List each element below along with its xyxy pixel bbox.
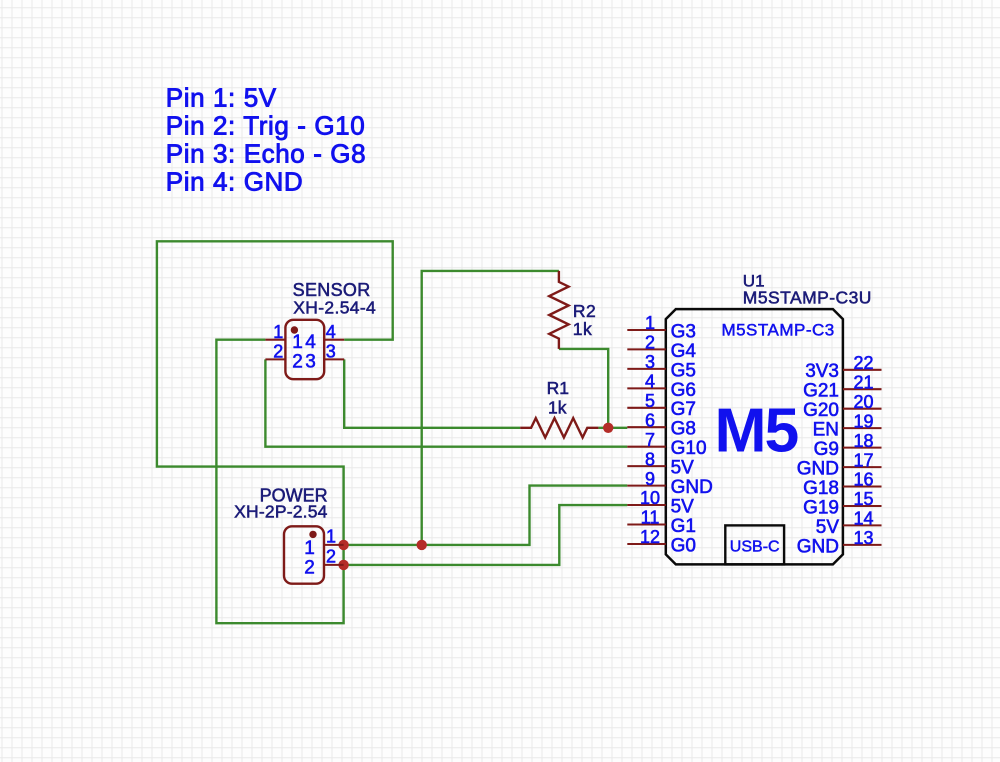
resistor R1 body — [520, 418, 598, 437]
svg-text:2: 2 — [645, 333, 655, 353]
wire sensor pin3 echo to R1 — [344, 359, 520, 427]
svg-text:M5STAMP-C3: M5STAMP-C3 — [721, 320, 834, 339]
svg-text:17: 17 — [853, 450, 873, 470]
wire R2 top to gnd junction — [422, 271, 559, 545]
svg-text:R1: R1 — [547, 378, 569, 398]
svg-text:G19: G19 — [803, 497, 839, 518]
svg-text:20: 20 — [853, 392, 873, 412]
svg-text:2: 2 — [326, 547, 336, 567]
svg-text:EN: EN — [813, 420, 839, 441]
U1 pin 21 stub — [843, 388, 882, 390]
svg-text:5V: 5V — [671, 458, 695, 479]
svg-text:G10: G10 — [671, 438, 707, 459]
U1 pin 16 stub — [843, 485, 882, 487]
U1 pin 20 stub — [843, 408, 882, 410]
junction dot gnd mid — [417, 540, 427, 550]
U1 pin 2 stub — [627, 348, 666, 350]
svg-text:19: 19 — [853, 411, 873, 431]
sensor pin 4 stub — [324, 339, 344, 341]
U1 pin 18 stub — [843, 447, 882, 449]
svg-text:1: 1 — [304, 538, 315, 559]
U1 pin 15 stub — [843, 505, 882, 507]
U1 pin 4 stub — [627, 387, 666, 389]
IC U1 body outline — [666, 309, 843, 564]
svg-text:22: 22 — [853, 353, 873, 373]
wire gnd junctions to GND pin9 — [344, 486, 628, 545]
svg-text:13: 13 — [853, 528, 873, 548]
wire net GND loop from sensor pin4 — [157, 241, 393, 623]
U1 pin 11 stub — [627, 523, 666, 525]
note pin map text — [166, 82, 366, 196]
svg-text:G5: G5 — [671, 360, 696, 381]
svg-text:2: 2 — [273, 342, 283, 362]
svg-text:3V3: 3V3 — [805, 361, 839, 382]
svg-text:G21: G21 — [803, 381, 839, 402]
svg-text:G9: G9 — [814, 439, 839, 460]
svg-text:G0: G0 — [671, 535, 696, 556]
wire R2 bottom to G8 junction — [559, 349, 608, 428]
svg-text:1: 1 — [645, 313, 655, 333]
svg-text:G8: G8 — [671, 419, 696, 440]
U1 pin 17 stub — [843, 466, 882, 468]
svg-text:1: 1 — [326, 527, 336, 547]
svg-text:4: 4 — [326, 322, 336, 342]
svg-text:15: 15 — [853, 489, 873, 509]
svg-text:2: 2 — [304, 558, 315, 579]
svg-text:GND: GND — [797, 536, 839, 557]
svg-text:4: 4 — [645, 372, 655, 392]
svg-text:21: 21 — [853, 373, 873, 393]
svg-text:7: 7 — [645, 430, 655, 450]
svg-text:16: 16 — [853, 470, 873, 490]
wire R1 right to G8 pin — [598, 427, 627, 429]
svg-text:G3: G3 — [671, 321, 696, 342]
power pin 2 stub — [324, 564, 344, 566]
svg-text:11: 11 — [641, 508, 660, 528]
svg-text:8: 8 — [645, 449, 655, 469]
svg-text:1k: 1k — [548, 398, 567, 418]
U1 pin 22 stub — [843, 369, 882, 371]
svg-text:4: 4 — [305, 332, 316, 353]
svg-text:USB-C: USB-C — [730, 539, 780, 556]
svg-text:M5: M5 — [714, 395, 798, 465]
svg-text:Pin 1: 5V: Pin 1: 5V — [166, 82, 277, 112]
svg-text:Pin 4: GND: Pin 4: GND — [166, 166, 303, 196]
svg-text:GND: GND — [797, 459, 839, 480]
U1 pin 14 stub — [843, 524, 882, 526]
junction dot power pin1 — [338, 540, 348, 550]
USB-C box — [725, 525, 784, 564]
svg-text:Pin 2: Trig - G10: Pin 2: Trig - G10 — [166, 110, 365, 140]
junction dot R1 R2 G8 — [603, 423, 613, 433]
resistor R2 body — [549, 271, 568, 349]
connector POWER pin1 mark dot — [309, 531, 316, 538]
wire 5V junction to 5V pin10 — [344, 505, 628, 565]
U1 pin 5 stub — [627, 407, 666, 409]
svg-text:G18: G18 — [803, 478, 839, 499]
svg-text:1k: 1k — [573, 319, 592, 339]
svg-text:18: 18 — [853, 431, 873, 451]
U1 pin 10 stub — [627, 504, 666, 506]
svg-text:M5STAMP-C3U: M5STAMP-C3U — [743, 288, 872, 308]
U1 pin 1 stub — [627, 329, 666, 331]
svg-text:2: 2 — [292, 352, 303, 373]
connector J1 SENSOR outline — [285, 320, 324, 379]
U1 pin 12 stub — [627, 543, 666, 545]
svg-text:G6: G6 — [671, 380, 696, 401]
svg-text:5: 5 — [645, 391, 655, 411]
sensor pin 1 stub — [265, 339, 285, 341]
svg-text:G1: G1 — [671, 516, 696, 537]
svg-text:6: 6 — [645, 411, 655, 431]
sensor pin 2 stub — [265, 358, 285, 360]
svg-text:GND: GND — [671, 477, 713, 498]
svg-text:1: 1 — [292, 332, 303, 353]
power pin 1 stub — [324, 544, 344, 546]
svg-text:1: 1 — [273, 322, 283, 342]
sensor pin 3 stub — [324, 358, 344, 360]
svg-text:10: 10 — [640, 488, 660, 508]
U1 pin 9 stub — [627, 485, 666, 487]
U1 pin 19 stub — [843, 427, 882, 429]
U1 pin 7 stub — [627, 446, 666, 448]
svg-text:G4: G4 — [671, 341, 697, 362]
svg-text:G7: G7 — [671, 399, 696, 420]
U1 pin 3 stub — [627, 368, 666, 370]
svg-text:5V: 5V — [816, 517, 840, 538]
U1 pin 8 stub — [627, 465, 666, 467]
U1 pin 13 stub — [843, 544, 882, 546]
connector SENSOR pin1 mark dot — [291, 326, 298, 333]
svg-text:9: 9 — [645, 469, 655, 489]
wire sensor pin2 trig to G10 pin — [265, 359, 627, 446]
svg-text:14: 14 — [853, 509, 873, 529]
svg-text:5V: 5V — [671, 496, 695, 517]
svg-text:G20: G20 — [803, 400, 839, 421]
svg-text:12: 12 — [640, 527, 660, 547]
svg-text:3: 3 — [305, 352, 316, 373]
svg-text:Pin 3: Echo - G8: Pin 3: Echo - G8 — [166, 138, 366, 168]
connector POWER outline — [284, 526, 324, 583]
junction dot power pin2 — [338, 560, 348, 570]
svg-text:3: 3 — [326, 342, 336, 362]
U1 pin 6 stub — [627, 426, 666, 428]
svg-text:3: 3 — [645, 352, 655, 372]
svg-text:XH-2P-2.54: XH-2P-2.54 — [234, 501, 327, 521]
svg-text:XH-2.54-4: XH-2.54-4 — [293, 297, 376, 317]
